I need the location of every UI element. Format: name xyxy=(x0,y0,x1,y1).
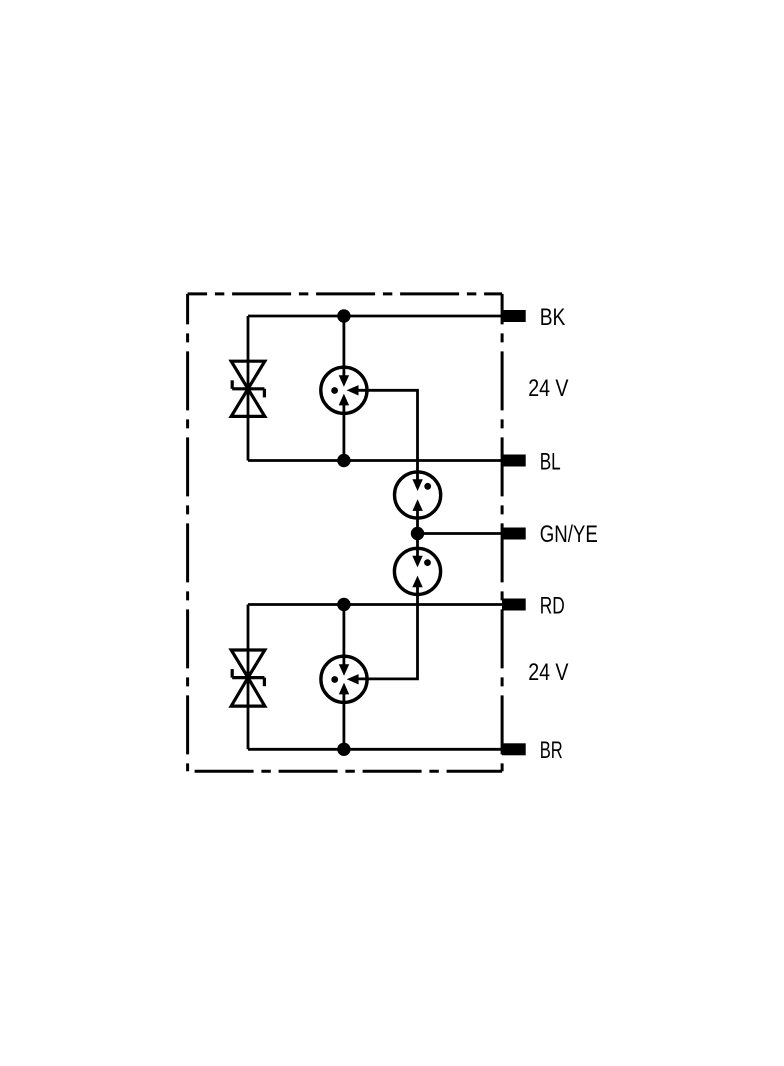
gas discharge tube bottom (3-electrode arrester) xyxy=(321,656,367,702)
wire from top arrester third electrode to middle column xyxy=(356,390,418,483)
junction node on BK wire xyxy=(337,309,350,322)
wire middle vertical bottom (RD to BR through arrester) xyxy=(342,605,345,750)
terminal RD xyxy=(502,599,526,611)
enclosure border right (dash-dot) xyxy=(501,294,504,771)
junction node on RD wire xyxy=(337,598,350,611)
svg-text:RD: RD xyxy=(540,592,565,619)
gas discharge tube middle 2 (2-electrode arrester) xyxy=(394,548,440,594)
wire middle arrester 2 down and left to bottom arrester third electrode xyxy=(356,584,418,679)
wire left vertical bottom (RD to BR through suppressor diode) xyxy=(247,605,250,750)
svg-text:GN/YE: GN/YE xyxy=(540,521,598,548)
svg-text:BL: BL xyxy=(540,448,561,475)
svg-text:BK: BK xyxy=(540,304,566,331)
svg-text:24 V: 24 V xyxy=(528,659,568,686)
wire BL horizontal xyxy=(248,459,504,462)
terminal BR xyxy=(502,743,526,755)
gas discharge tube top (3-electrode arrester) xyxy=(321,367,367,413)
wire left vertical top (BK to BL through suppressor diode) xyxy=(247,316,250,461)
svg-text:BR: BR xyxy=(540,737,563,764)
wire RD horizontal xyxy=(248,603,504,606)
enclosure border left (dash-dot) xyxy=(186,294,189,771)
junction node GN/YE xyxy=(411,527,424,540)
wire GN/YE horizontal xyxy=(418,532,505,535)
wire BR horizontal xyxy=(248,748,504,751)
terminal BL xyxy=(502,455,526,467)
junction node on BR wire xyxy=(337,743,350,756)
wire BK horizontal xyxy=(248,315,504,318)
enclosure border bottom (dash-dot) xyxy=(188,770,503,773)
junction node on BL wire xyxy=(337,454,350,467)
svg-text:24 V: 24 V xyxy=(528,375,568,402)
enclosure border top (dash-dot) xyxy=(188,292,503,295)
suppressor diode top (bidirectional TVS) xyxy=(231,361,265,416)
suppressor diode bottom (bidirectional TVS) xyxy=(231,650,265,706)
wire middle vertical top (BK to BL through arrester) xyxy=(342,316,345,461)
gas discharge tube middle 1 (2-electrode arrester) xyxy=(395,472,441,518)
terminal GN/YE xyxy=(502,528,526,540)
terminal BK xyxy=(502,310,526,322)
wire middle arrester 1 to GN/YE node xyxy=(416,508,419,534)
wire GN/YE node to middle arrester 2 xyxy=(416,534,419,559)
